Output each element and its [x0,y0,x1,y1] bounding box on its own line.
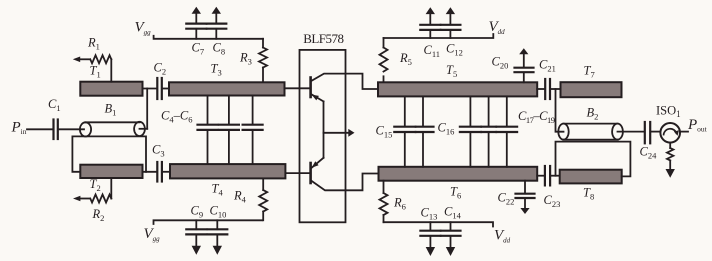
supply Vdd top label [489,19,506,36]
wire B2 to C24 [618,131,645,133]
lower source arrowhead [312,161,319,168]
label C17-C19 [518,109,555,125]
resistor R4 [233,178,267,220]
wire B1 inner to gate node [146,89,148,129]
transistor upper gate bar [309,78,312,98]
capacitor C3 [152,143,165,182]
capacitor C15 [376,96,416,166]
Vgg top rail [154,36,263,39]
capacitor C11 [420,7,440,59]
wire input [27,128,53,130]
wire C1 to B1 [58,128,84,130]
resistor R2 [73,178,111,223]
capacitor C19 [497,96,518,166]
capacitor C8 [207,7,227,57]
transistor lower gate bar [309,163,312,183]
wire C24 to ISO1 [650,131,660,133]
microstrip T1 [80,64,142,96]
capacitor C1 [48,97,61,139]
microstrip T2 [80,165,142,193]
resistor R3 [239,39,267,83]
microstrip T8 [560,170,622,202]
capacitor C10 [208,204,228,255]
capacitor C7 [186,7,206,57]
lower source lead [311,158,324,169]
microstrip T7 [561,64,622,98]
resistor R5 [380,38,412,82]
resistor R6 [380,181,406,223]
capacitor C17 [460,96,481,166]
Vdd top rail [384,34,494,38]
upper source arrowhead [312,95,319,101]
ground arrow of termination [666,169,675,178]
upper source lead [311,94,324,101]
capacitor C4 [198,96,218,165]
capacitor C2 [154,61,167,100]
wire C23 to T8 [550,175,559,177]
wire T3 to upper gate [285,87,311,89]
common source stub [324,132,349,134]
wire ISO1 to Pout [680,131,688,133]
svg-text:BLF578: BLF578 [303,31,343,46]
microstrip T3 [169,62,285,96]
capacitor C23 [544,166,561,209]
circulator ISO1 [656,104,681,143]
wire C21 to T7 [550,88,560,90]
balun B2 ground frame [556,142,631,177]
capacitor C22 [498,181,535,214]
capacitor C13 [420,206,440,257]
supply Vgg top label [135,19,152,36]
wire T4 to lower gate [285,172,310,174]
microstrip T5 [378,63,537,96]
wire T6 to C23 [537,175,544,177]
capacitor C24 [640,122,658,161]
wire C2 to T3 [162,88,169,90]
BLF578 package box [300,50,346,222]
supply Vdd bottom label [494,228,511,245]
wire node to B2 inner [556,89,564,132]
svg-text:C4–C6: C4–C6 [161,109,192,125]
supply Vgg bottom label [144,226,161,243]
wire T5 to C21 [537,88,545,90]
wire T2 to C3 [143,171,158,173]
wire T1 to C2 [143,88,158,90]
termination resistor at ISO1 [667,143,673,170]
wire C3 to T4 [162,171,170,173]
Vdd bottom rail [384,222,494,226]
port Pin label [11,120,27,137]
microstrip T4 [170,164,285,197]
balun B1 ground frame [72,136,146,171]
capacitor C12 [441,7,463,57]
capacitor C9 [186,204,206,255]
port Pout label [687,117,708,134]
lower drain lead [311,174,379,191]
capacitor C14 [441,205,462,257]
capacitor C21 [539,58,556,100]
BLF578 label [303,31,343,46]
label C4-C6 [161,109,192,125]
Vgg bottom rail [154,220,263,224]
common source vertical [323,101,325,157]
capacitor C5 [219,96,239,165]
capacitor C16 [416,96,455,166]
balun B1 [80,102,147,137]
common source arrowhead [348,129,354,137]
resistor R1 [73,36,112,82]
balun B2 [558,106,623,140]
capacitor C20 [492,48,534,82]
capacitor C18 [481,96,496,166]
upper drain lead [311,74,378,89]
capacitor C6 [243,96,263,165]
microstrip T6 [379,167,538,201]
